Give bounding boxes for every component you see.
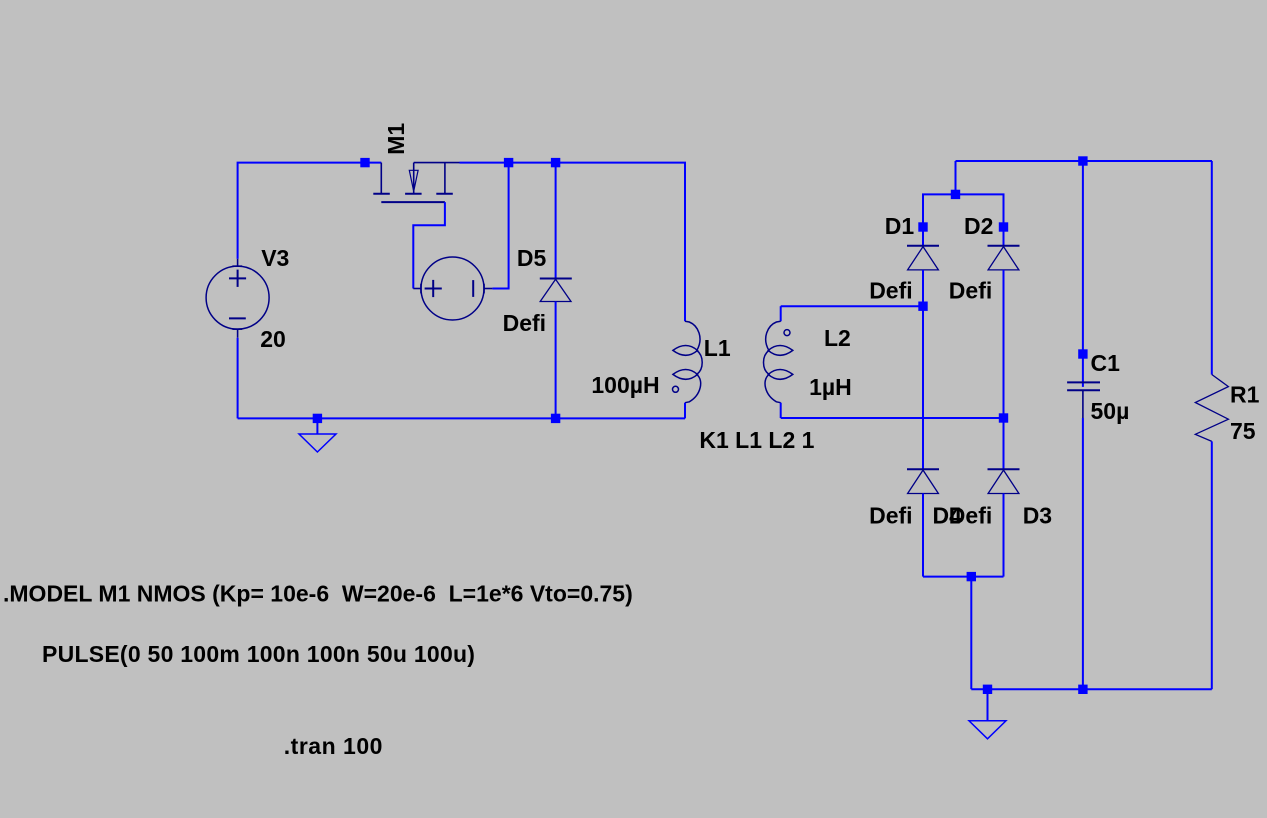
svg-text:.tran 100: .tran 100 (284, 733, 383, 759)
node junction V2 minus on top rail (504, 158, 513, 167)
label Defi (D5 value) (503, 310, 546, 336)
spice directive PULSE (42, 641, 475, 667)
node C1 anchor (1078, 349, 1087, 358)
svg-text:D3: D3 (1023, 502, 1052, 528)
label L1 (704, 335, 731, 361)
label C1 (1091, 350, 1121, 376)
label 50u (1091, 398, 1130, 424)
svg-text:L2: L2 (824, 325, 851, 351)
node D1 top (918, 222, 927, 231)
label Defi (D1 value) (869, 278, 912, 304)
svg-text:50µ: 50µ (1091, 398, 1130, 424)
wire top rail left (V3 to M1 drain) (238, 163, 382, 259)
diode D2 (988, 227, 1020, 418)
wire L2 top to bridge (781, 305, 923, 307)
svg-text:75: 75 (1230, 418, 1256, 444)
wire bottom rail left (238, 417, 685, 419)
resistor R1 (1195, 161, 1228, 689)
label L2 (824, 325, 851, 351)
wire L2 bottom to D3 branch (781, 417, 1004, 419)
label 20 (260, 326, 286, 352)
svg-text:D2: D2 (964, 213, 993, 239)
svg-text:.MODEL M1 NMOS (Kp= 10e-6 W=2: .MODEL M1 NMOS (Kp= 10e-6 W=20e-6 L=1e*6… (3, 580, 633, 606)
node junction L2 top / D1 bottom (918, 302, 927, 311)
label D3 (1023, 502, 1052, 528)
label Defi (D3 value) (949, 502, 992, 528)
svg-text:R1: R1 (1230, 382, 1260, 408)
svg-text:Defi: Defi (869, 502, 912, 528)
inductor L1 (673, 321, 703, 418)
label V3 (261, 245, 289, 271)
label Defi (D2 value) (949, 278, 992, 304)
inductor L2 (764, 306, 793, 418)
wire M1 gate to V2 plus (413, 202, 445, 288)
voltage source V3 (206, 259, 269, 338)
svg-text:L1: L1 (704, 335, 731, 361)
node junction C1 bottom rail (1078, 685, 1087, 694)
svg-text:D1: D1 (885, 213, 915, 239)
node junction ground right (983, 685, 992, 694)
svg-text:PULSE(0 50 100m 100n 100n 50u: PULSE(0 50 100m 100n 100n 50u 100u) (42, 641, 475, 667)
label R1 (1230, 382, 1260, 408)
node junction D5 bottom (551, 414, 560, 423)
diode D1 (907, 227, 939, 306)
node junction bridge bottom (967, 572, 976, 581)
label D2 (964, 213, 993, 239)
wire D1 branch down through L2 bottom crossing (922, 306, 924, 469)
node D2 top (999, 222, 1008, 231)
svg-text:Defi: Defi (503, 310, 546, 336)
spice directive .MODEL (3, 580, 633, 606)
svg-text:M1: M1 (383, 123, 409, 155)
node junction ground left (313, 414, 322, 423)
spice directive .tran (284, 733, 383, 759)
wire bridge bottom to bottom rail (970, 577, 972, 690)
ground symbol left (299, 418, 336, 452)
svg-text:K1 L1 L2 1: K1 L1 L2 1 (699, 427, 814, 453)
svg-text:1µH: 1µH (809, 374, 852, 400)
node junction M1 drain on top rail (360, 158, 369, 167)
capacitor C1 (1067, 161, 1100, 689)
label 1uH (809, 374, 852, 400)
label K1 L1 L2 1 (699, 427, 814, 453)
label D4 (933, 502, 963, 528)
wire bridge bottom bar (923, 576, 1004, 578)
label 75 (1230, 418, 1256, 444)
svg-text:20: 20 (260, 326, 286, 352)
voltage source V2 (pulse gate drive) (413, 257, 492, 320)
wire V2 minus to top rail (492, 163, 508, 289)
wire bridge top bar (923, 194, 1004, 227)
wire V3 bottom lead (237, 338, 239, 419)
diode D4 (907, 469, 939, 576)
wire bottom rail right (971, 688, 1212, 690)
svg-text:100µH: 100µH (591, 372, 659, 398)
svg-text:D5: D5 (517, 245, 547, 271)
label M1 (rotated) (383, 123, 409, 155)
svg-text:C1: C1 (1091, 350, 1121, 376)
wire top rail right (956, 160, 1213, 162)
label D5 (517, 245, 547, 271)
svg-text:Defi: Defi (949, 502, 992, 528)
svg-text:Defi: Defi (949, 278, 992, 304)
ground symbol right (969, 689, 1006, 739)
node junction bridge top (951, 190, 960, 199)
diode D5 (540, 163, 572, 419)
label Defi (D4 value) (869, 502, 912, 528)
node junction L2 bottom / D3 top (999, 413, 1008, 422)
svg-text:Defi: Defi (869, 278, 912, 304)
node junction D5 top on top rail (551, 158, 560, 167)
svg-text:V3: V3 (261, 245, 289, 271)
transistor M1 (NMOS) (373, 163, 459, 203)
diode D3 (988, 418, 1020, 577)
label D1 (885, 213, 915, 239)
node junction C1 top rail (1078, 156, 1087, 165)
wire bridge top feed (955, 161, 957, 194)
label 100uH (591, 372, 659, 398)
wire top rail right of M1 (source to L1) (460, 163, 686, 322)
